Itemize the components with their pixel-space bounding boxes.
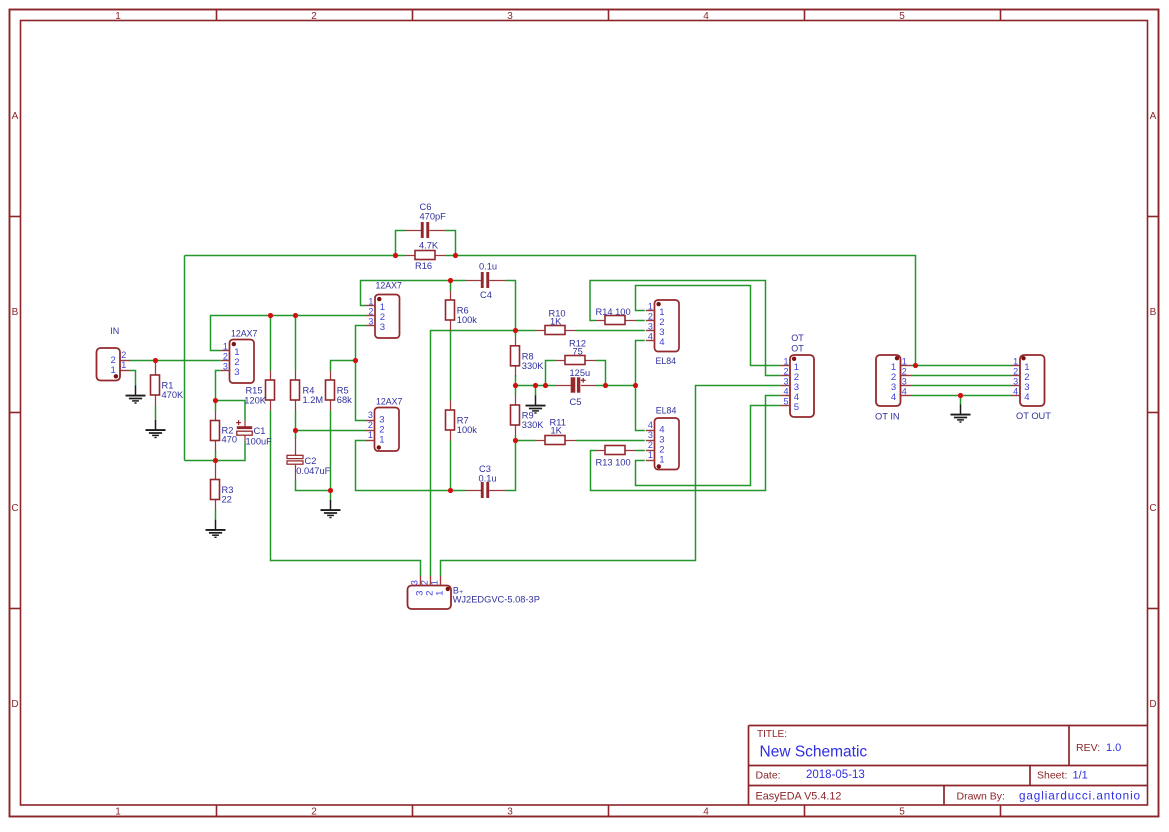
svg-text:3: 3 bbox=[1013, 376, 1018, 386]
svg-text:4: 4 bbox=[891, 392, 897, 403]
svg-text:12AX7: 12AX7 bbox=[231, 328, 258, 338]
svg-text:0.1u: 0.1u bbox=[479, 474, 497, 484]
svg-text:1: 1 bbox=[368, 296, 373, 306]
svg-text:2: 2 bbox=[223, 351, 228, 361]
svg-text:1K: 1K bbox=[551, 425, 563, 435]
svg-text:4: 4 bbox=[1013, 386, 1018, 396]
svg-text:C: C bbox=[11, 503, 18, 514]
svg-text:C5: C5 bbox=[570, 397, 582, 407]
svg-text:4: 4 bbox=[703, 807, 709, 818]
svg-text:C3: C3 bbox=[479, 464, 491, 474]
svg-text:New Schematic: New Schematic bbox=[760, 744, 868, 761]
svg-text:REV:: REV: bbox=[1076, 742, 1100, 754]
svg-text:2: 2 bbox=[648, 440, 653, 450]
svg-text:Date:: Date: bbox=[756, 770, 781, 782]
svg-text:4: 4 bbox=[1024, 392, 1030, 403]
svg-text:EasyEDA V5.4.12: EasyEDA V5.4.12 bbox=[756, 791, 842, 803]
svg-text:4: 4 bbox=[648, 420, 653, 430]
svg-text:1: 1 bbox=[902, 356, 907, 366]
svg-text:3: 3 bbox=[380, 322, 385, 333]
svg-text:2: 2 bbox=[311, 807, 317, 818]
svg-text:470K: 470K bbox=[162, 390, 185, 400]
svg-text:R7: R7 bbox=[457, 416, 469, 426]
svg-text:3: 3 bbox=[902, 376, 907, 386]
svg-text:4: 4 bbox=[648, 331, 653, 341]
svg-text:3: 3 bbox=[368, 316, 373, 326]
svg-text:1: 1 bbox=[115, 11, 121, 22]
svg-text:C2: C2 bbox=[305, 456, 317, 466]
svg-text:EL84: EL84 bbox=[656, 356, 677, 366]
svg-text:330K: 330K bbox=[522, 361, 545, 371]
svg-text:2: 2 bbox=[121, 350, 126, 360]
svg-text:1: 1 bbox=[368, 430, 373, 440]
svg-text:1: 1 bbox=[430, 580, 440, 585]
svg-text:3: 3 bbox=[368, 410, 373, 420]
svg-text:4: 4 bbox=[703, 11, 709, 22]
svg-text:R4: R4 bbox=[303, 386, 315, 396]
svg-text:3: 3 bbox=[234, 367, 239, 378]
svg-text:5: 5 bbox=[899, 11, 905, 22]
svg-text:5: 5 bbox=[783, 396, 788, 406]
svg-text:D: D bbox=[1149, 699, 1156, 710]
svg-text:4: 4 bbox=[659, 337, 665, 348]
svg-text:3: 3 bbox=[648, 321, 653, 331]
svg-text:C4: C4 bbox=[480, 290, 492, 300]
svg-text:1: 1 bbox=[659, 455, 664, 466]
svg-text:D: D bbox=[11, 699, 18, 710]
svg-text:5: 5 bbox=[899, 807, 905, 818]
svg-text:OT: OT bbox=[791, 344, 804, 354]
svg-text:3: 3 bbox=[507, 11, 513, 22]
svg-text:A: A bbox=[12, 111, 19, 122]
svg-text:4.7K: 4.7K bbox=[419, 241, 439, 251]
svg-text:OT: OT bbox=[791, 333, 804, 343]
svg-text:1: 1 bbox=[223, 341, 228, 351]
svg-text:0.1u: 0.1u bbox=[479, 261, 497, 271]
svg-text:OT OUT: OT OUT bbox=[1016, 411, 1051, 421]
svg-text:1: 1 bbox=[379, 435, 384, 446]
svg-text:1: 1 bbox=[110, 365, 115, 376]
svg-text:A: A bbox=[1150, 111, 1157, 122]
svg-text:Sheet:: Sheet: bbox=[1037, 770, 1067, 782]
svg-text:IN: IN bbox=[110, 326, 119, 336]
svg-text:R9: R9 bbox=[522, 411, 534, 421]
svg-text:3: 3 bbox=[783, 376, 788, 386]
svg-text:5: 5 bbox=[794, 402, 799, 413]
svg-text:2: 2 bbox=[420, 580, 430, 585]
svg-text:2018-05-13: 2018-05-13 bbox=[806, 769, 865, 781]
svg-text:2: 2 bbox=[311, 11, 317, 22]
svg-text:TITLE:: TITLE: bbox=[757, 729, 787, 740]
svg-text:gagliarducci.antonio: gagliarducci.antonio bbox=[1019, 790, 1141, 803]
svg-text:C1: C1 bbox=[254, 426, 266, 436]
svg-text:R14 100: R14 100 bbox=[596, 307, 631, 317]
svg-text:330K: 330K bbox=[522, 420, 545, 430]
svg-text:22: 22 bbox=[222, 495, 232, 505]
svg-text:2: 2 bbox=[368, 420, 373, 430]
svg-text:100uF: 100uF bbox=[246, 436, 273, 446]
svg-text:2: 2 bbox=[902, 366, 907, 376]
svg-text:1: 1 bbox=[1013, 356, 1018, 366]
svg-text:R3: R3 bbox=[222, 485, 234, 495]
svg-text:1K: 1K bbox=[550, 316, 562, 326]
svg-text:3: 3 bbox=[648, 430, 653, 440]
svg-text:WJ2EDGVC-5.08-3P: WJ2EDGVC-5.08-3P bbox=[453, 594, 540, 604]
svg-text:1: 1 bbox=[435, 591, 446, 596]
svg-text:2: 2 bbox=[1013, 366, 1018, 376]
svg-text:100k: 100k bbox=[457, 425, 478, 435]
svg-text:1: 1 bbox=[648, 301, 653, 311]
svg-text:B: B bbox=[12, 307, 19, 318]
svg-text:B: B bbox=[1150, 307, 1157, 318]
svg-text:100k: 100k bbox=[457, 315, 478, 325]
svg-text:3: 3 bbox=[507, 807, 513, 818]
svg-text:R5: R5 bbox=[337, 386, 349, 396]
svg-text:12AX7: 12AX7 bbox=[376, 281, 403, 291]
svg-text:R13 100: R13 100 bbox=[596, 457, 631, 467]
svg-text:R6: R6 bbox=[457, 306, 469, 316]
svg-text:4: 4 bbox=[783, 386, 788, 396]
svg-text:2: 2 bbox=[783, 366, 788, 376]
svg-text:125u: 125u bbox=[570, 368, 591, 378]
svg-text:3: 3 bbox=[410, 580, 420, 585]
svg-text:1.0: 1.0 bbox=[1106, 742, 1121, 754]
svg-text:470: 470 bbox=[222, 435, 238, 445]
svg-text:1/1: 1/1 bbox=[1073, 770, 1088, 782]
svg-text:OT IN: OT IN bbox=[875, 412, 900, 422]
svg-text:0.047uF: 0.047uF bbox=[296, 466, 330, 476]
svg-text:1.2M: 1.2M bbox=[303, 395, 324, 405]
svg-text:68k: 68k bbox=[337, 395, 352, 405]
svg-text:75: 75 bbox=[573, 347, 583, 357]
svg-text:1: 1 bbox=[121, 360, 126, 370]
svg-text:3: 3 bbox=[223, 361, 228, 371]
svg-text:12AX7: 12AX7 bbox=[376, 397, 403, 407]
svg-text:C: C bbox=[1149, 503, 1156, 514]
svg-text:R15: R15 bbox=[245, 386, 262, 396]
svg-text:4: 4 bbox=[902, 386, 907, 396]
svg-text:120K: 120K bbox=[244, 395, 267, 405]
svg-text:R16: R16 bbox=[415, 261, 432, 271]
svg-text:470pF: 470pF bbox=[420, 211, 447, 221]
svg-text:R8: R8 bbox=[522, 351, 534, 361]
svg-text:EL84: EL84 bbox=[656, 406, 677, 416]
svg-text:Drawn By:: Drawn By: bbox=[957, 790, 1005, 802]
svg-text:R1: R1 bbox=[162, 381, 174, 391]
svg-text:2: 2 bbox=[368, 306, 373, 316]
svg-text:1: 1 bbox=[115, 807, 121, 818]
svg-text:1: 1 bbox=[648, 450, 653, 460]
svg-text:1: 1 bbox=[783, 356, 788, 366]
svg-text:2: 2 bbox=[648, 311, 653, 321]
